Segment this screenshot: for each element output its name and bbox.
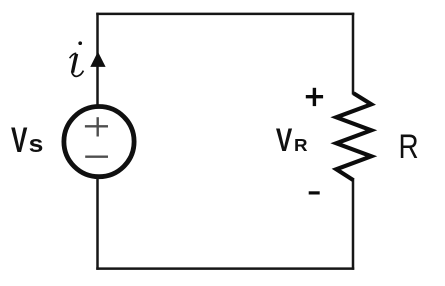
current arrow i [90, 52, 105, 67]
wire left upper [96, 13, 99, 107]
label current i [70, 41, 84, 76]
resistor minus polarity label [309, 191, 320, 194]
voltage source minus sign [85, 155, 108, 157]
svg-text:R: R [294, 136, 308, 155]
svg-text:s: s [29, 131, 44, 158]
label VR [276, 123, 308, 159]
resistor plus polarity label [306, 88, 323, 106]
wire left lower [96, 177, 99, 270]
resistor R zigzag [336, 93, 371, 180]
wire right lower [352, 179, 355, 270]
svg-text:R: R [399, 127, 419, 166]
voltage source plus sign [85, 117, 108, 136]
wire bottom [96, 267, 354, 270]
wire top [96, 13, 354, 16]
wire right upper [352, 13, 355, 95]
voltage source U1 circle [64, 107, 134, 177]
svg-text:V: V [11, 121, 28, 160]
label Vs [11, 121, 43, 160]
svg-text:V: V [276, 123, 293, 159]
